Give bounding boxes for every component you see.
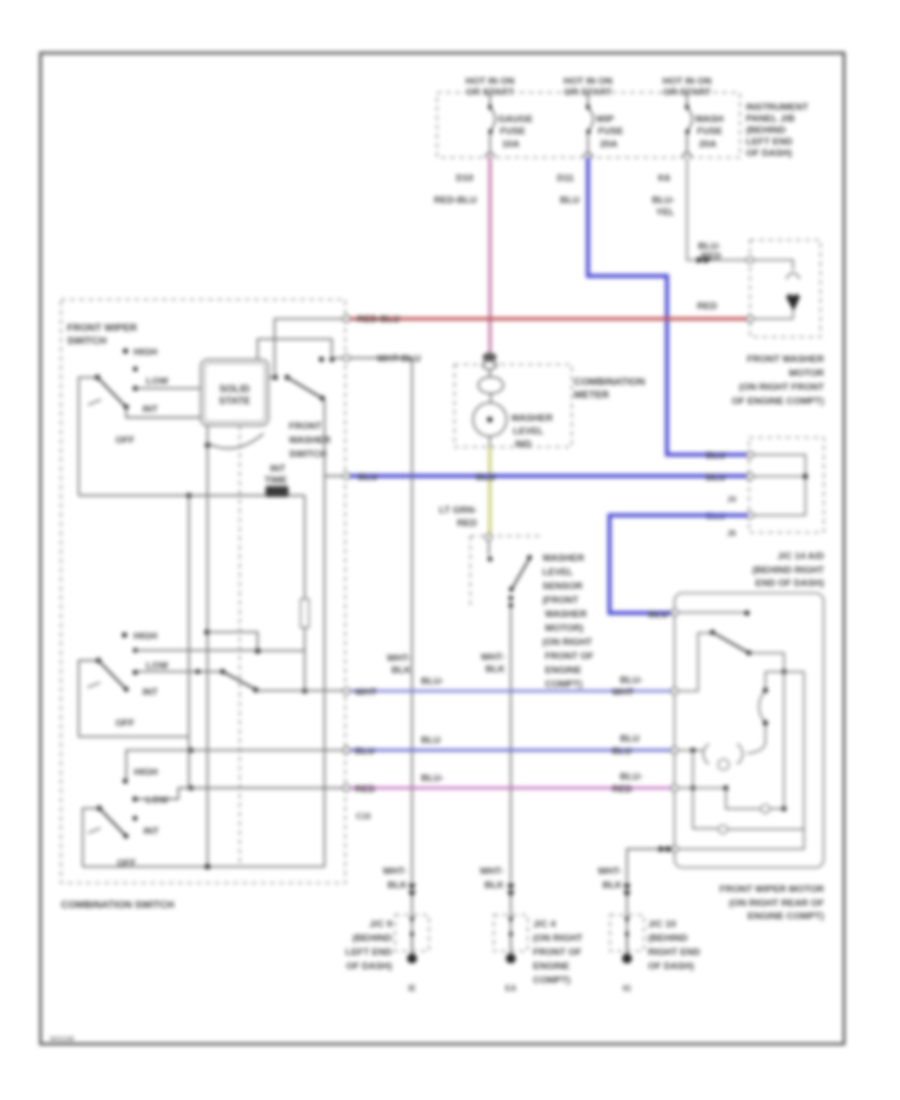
svg-text:BLU: BLU xyxy=(612,746,632,757)
svg-text:FUSE: FUSE xyxy=(697,126,722,137)
svg-text:INT: INT xyxy=(144,826,160,837)
svg-text:BLU-: BLU- xyxy=(620,772,643,783)
wiper motor internal ground path xyxy=(691,750,805,833)
connector label D10 xyxy=(434,173,477,206)
wire WHT-BLK sensor to ground xyxy=(481,607,511,953)
svg-text:IND: IND xyxy=(515,439,532,450)
ground connector 1 xyxy=(395,884,429,993)
svg-text:FRONT WIPER: FRONT WIPER xyxy=(67,323,138,334)
svg-text:SWITCH: SWITCH xyxy=(289,449,327,460)
svg-text:BLK: BLK xyxy=(391,665,411,676)
svg-text:FRONT WIPER MOTOR: FRONT WIPER MOTOR xyxy=(720,884,824,895)
label J/C 14 xyxy=(752,551,824,589)
svg-text:20A: 20A xyxy=(600,139,618,150)
junction connector J/C 14 (dashed box) xyxy=(706,438,824,539)
wire BLU from WIP fuse to J/C xyxy=(588,158,747,455)
front washer motor (dashed box) xyxy=(747,240,821,337)
wire BLU-WHT intermittent row xyxy=(349,675,673,698)
svg-text:BLU-: BLU- xyxy=(421,773,444,784)
label J/C 10 xyxy=(648,919,700,972)
svg-text:J6: J6 xyxy=(727,529,736,538)
svg-text:LT GRN-: LT GRN- xyxy=(439,505,477,516)
svg-text:(BEHIND: (BEHIND xyxy=(746,125,786,136)
svg-text:GAUGE: GAUGE xyxy=(498,114,533,125)
svg-text:FUSE: FUSE xyxy=(598,126,623,137)
svg-text:(ON RIGHT: (ON RIGHT xyxy=(533,933,583,944)
svg-text:OF DASH): OF DASH) xyxy=(346,961,392,972)
svg-text:EA: EA xyxy=(505,984,516,993)
ground 2 wire label xyxy=(480,866,504,891)
svg-text:OF ENGINE COMPT): OF ENGINE COMPT) xyxy=(732,396,824,407)
svg-text:(FRONT: (FRONT xyxy=(543,595,579,606)
wire WHT-BLK wiper motor to ground 3 xyxy=(598,846,673,954)
svg-text:(ON RIGHT REAR OF: (ON RIGHT REAR OF xyxy=(729,898,824,909)
svg-text:COMPT): COMPT) xyxy=(533,975,570,986)
svg-text:BLU: BLU xyxy=(706,451,726,462)
svg-text:RED: RED xyxy=(701,251,721,262)
svg-text:PANEL J/B: PANEL J/B xyxy=(746,114,795,125)
svg-text:WHT-: WHT- xyxy=(387,653,411,664)
svg-text:INT: INT xyxy=(270,464,286,475)
svg-text:IE: IE xyxy=(408,984,416,993)
off rail 2 xyxy=(83,864,325,870)
wire WHT-BLU washer switch to ground 1 xyxy=(349,354,421,954)
svg-text:(ON RIGHT FRONT: (ON RIGHT FRONT xyxy=(739,382,824,393)
svg-text:WHT-: WHT- xyxy=(598,866,622,877)
wire RED washer switch to washer motor xyxy=(349,301,747,325)
combination switch (dashed box) xyxy=(61,300,345,884)
svg-text:LOW: LOW xyxy=(146,376,168,387)
svg-text:10A: 10A xyxy=(502,139,520,150)
dashed internal link xyxy=(239,426,241,865)
svg-text:OF DASH): OF DASH) xyxy=(648,961,694,972)
svg-text:FUSE: FUSE xyxy=(500,126,525,137)
svg-text:FRONT WASHER: FRONT WASHER xyxy=(747,354,824,365)
washer switch contacts xyxy=(258,319,343,867)
svg-text:BLU: BLU xyxy=(648,610,668,621)
ground connector 2 xyxy=(494,884,528,993)
power feed label HOT IN ON (fuse 3) xyxy=(662,76,711,98)
wiper motor park switch arm xyxy=(679,630,787,691)
svg-text:WHT-: WHT- xyxy=(481,652,505,663)
washer level sensor (dashed box) xyxy=(470,534,540,608)
svg-text:BLU: BLU xyxy=(560,195,580,206)
svg-text:J/C 10: J/C 10 xyxy=(648,919,676,930)
common vertical xyxy=(188,496,193,791)
svg-text:SOLID: SOLID xyxy=(219,384,250,395)
svg-text:J/C 14 A/D: J/C 14 A/D xyxy=(777,551,824,562)
wiper motor park contact feed xyxy=(679,610,750,615)
svg-text:WASHER: WASHER xyxy=(543,553,585,564)
svg-text:D11: D11 xyxy=(557,173,575,184)
wire BLU low speed row xyxy=(349,734,673,758)
svg-text:BLU: BLU xyxy=(358,472,378,483)
svg-text:ENGINE COMPT): ENGINE COMPT) xyxy=(747,911,824,922)
svg-text:K6: K6 xyxy=(658,173,670,184)
svg-text:OFF: OFF xyxy=(116,435,135,446)
svg-text:D10: D10 xyxy=(456,173,473,184)
svg-text:FRONT OF: FRONT OF xyxy=(533,947,582,958)
wire BLU-YEL / BLU-RED from WASH fuse to washer motor xyxy=(687,158,747,264)
ground 1 wire label xyxy=(383,866,407,891)
label J/C 4 xyxy=(533,919,583,986)
svg-text:WIP: WIP xyxy=(596,114,615,125)
svg-text:COMBINATION: COMBINATION xyxy=(574,377,645,388)
wiper switch section 3 xyxy=(83,750,343,869)
wiper switch section 1 xyxy=(79,347,201,496)
label front washer switch xyxy=(289,421,331,460)
fuse GAUGE 10A xyxy=(486,93,533,158)
resistor int timer xyxy=(207,496,309,694)
svg-text:J4: J4 xyxy=(727,495,736,504)
svg-text:HOT IN ON: HOT IN ON xyxy=(563,76,612,87)
svg-text:(BEHIND: (BEHIND xyxy=(352,933,392,944)
svg-text:BLK: BLK xyxy=(485,664,505,675)
wiper motor right rail xyxy=(679,672,805,849)
svg-text:BLU-: BLU- xyxy=(421,676,444,687)
svg-text:MOTOR: MOTOR xyxy=(789,368,824,379)
svg-text:LEVEL: LEVEL xyxy=(513,426,544,437)
svg-text:WHT: WHT xyxy=(612,687,634,698)
svg-text:LOW: LOW xyxy=(146,661,168,672)
svg-text:BLU: BLU xyxy=(620,734,640,745)
wiper motor common path xyxy=(679,672,787,813)
connector label K6 xyxy=(652,173,675,218)
svg-text:RED-BLU: RED-BLU xyxy=(357,314,400,325)
label combination meter xyxy=(574,377,645,401)
connector label D11 xyxy=(557,173,580,206)
svg-text:RED: RED xyxy=(697,301,717,312)
svg-text:WASHER: WASHER xyxy=(511,413,553,424)
svg-text:RED: RED xyxy=(457,518,477,529)
wiper motor cam contact xyxy=(747,672,804,754)
svg-text:20A: 20A xyxy=(699,139,717,150)
svg-text:BLU: BLU xyxy=(476,472,496,483)
svg-text:RED: RED xyxy=(355,784,375,795)
svg-text:BLK: BLK xyxy=(387,880,407,891)
svg-text:WHT-: WHT- xyxy=(480,866,504,877)
svg-text:(ON RIGHT: (ON RIGHT xyxy=(543,637,593,648)
solid state output xyxy=(204,426,263,867)
svg-text:SENSOR: SENSOR xyxy=(543,581,583,592)
svg-text:LOW: LOW xyxy=(146,795,168,806)
svg-text:INT: INT xyxy=(143,687,159,698)
label front washer motor xyxy=(732,354,825,407)
svg-text:MOTOR): MOTOR) xyxy=(545,623,583,634)
svg-text:WASH: WASH xyxy=(695,114,724,125)
svg-text:SWITCH: SWITCH xyxy=(67,336,106,347)
svg-text:FRONT OF: FRONT OF xyxy=(545,651,594,662)
svg-text:HIGH: HIGH xyxy=(134,631,158,642)
fuse WASH 20A xyxy=(683,93,724,158)
svg-text:INT: INT xyxy=(143,404,159,415)
wire RED-BLU from gauge fuse to combination meter xyxy=(488,158,491,353)
front wiper motor box xyxy=(671,593,824,868)
fuse WIP 20A xyxy=(584,93,624,158)
svg-text:HOT IN ON: HOT IN ON xyxy=(465,76,514,87)
svg-text:STATE: STATE xyxy=(219,396,251,407)
int time control xyxy=(265,464,289,498)
svg-text:RED-BLU: RED-BLU xyxy=(434,195,477,206)
svg-text:YEL: YEL xyxy=(656,207,675,218)
label J/C 9 xyxy=(346,919,393,972)
svg-text:IG: IG xyxy=(623,984,631,993)
svg-text:M4110B: M4110B xyxy=(50,1036,75,1043)
instrument panel junction block (dashed box) xyxy=(437,93,740,158)
svg-text:OFF: OFF xyxy=(116,718,135,729)
wire BLU from J/C 14 to wiper motor xyxy=(610,515,749,620)
label front wiper motor xyxy=(720,884,825,922)
solid state controller U1 xyxy=(201,360,269,426)
svg-text:INSTRUMENT: INSTRUMENT xyxy=(746,102,808,113)
wire LT GRN-RED meter to level sensor xyxy=(439,447,490,535)
svg-text:HIGH: HIGH xyxy=(134,767,158,778)
off rail 1 xyxy=(79,493,305,498)
svg-text:BLU-: BLU- xyxy=(620,675,643,686)
svg-text:BLU: BLU xyxy=(706,472,726,483)
svg-text:TIME: TIME xyxy=(265,475,288,486)
svg-text:RED: RED xyxy=(612,784,632,795)
svg-text:COMBINATION SWITCH: COMBINATION SWITCH xyxy=(61,900,174,911)
label instrument panel J/B xyxy=(746,102,808,159)
svg-text:J/C 9: J/C 9 xyxy=(369,919,392,930)
svg-text:(BEHIND RIGHT: (BEHIND RIGHT xyxy=(752,565,824,576)
svg-text:C16: C16 xyxy=(356,812,371,821)
label washer level sensor xyxy=(543,553,594,690)
svg-text:ENGINE: ENGINE xyxy=(545,665,581,676)
ground connector 3 xyxy=(610,884,644,993)
svg-text:WASHER: WASHER xyxy=(289,435,331,446)
svg-text:LEVEL: LEVEL xyxy=(543,567,574,578)
svg-text:HOT IN ON: HOT IN ON xyxy=(662,76,711,87)
svg-text:LEFT END: LEFT END xyxy=(746,137,793,148)
svg-text:COMPT): COMPT) xyxy=(545,679,582,690)
svg-text:WASHER: WASHER xyxy=(545,609,587,620)
svg-text:ENGINE: ENGINE xyxy=(533,961,569,972)
svg-text:(BEHIND: (BEHIND xyxy=(648,933,688,944)
svg-text:BLU: BLU xyxy=(421,735,441,746)
svg-text:WHT-: WHT- xyxy=(383,866,407,877)
svg-text:END OF DASH): END OF DASH) xyxy=(755,578,824,589)
svg-text:FRONT: FRONT xyxy=(289,421,322,432)
svg-text:LEFT END: LEFT END xyxy=(346,947,393,958)
wiper switch section 2 xyxy=(79,631,343,737)
svg-text:BLK: BLK xyxy=(602,880,622,891)
power feed label HOT IN ON (fuse 2) xyxy=(563,76,612,98)
svg-text:BLK: BLK xyxy=(484,880,504,891)
svg-text:BLU-: BLU- xyxy=(652,195,675,206)
combination meter (dashed box) xyxy=(454,353,571,451)
wire BLU combination switch to J/C 14 xyxy=(349,472,747,483)
svg-text:J/C 4: J/C 4 xyxy=(533,919,556,930)
svg-text:RIGHT END: RIGHT END xyxy=(648,947,700,958)
svg-text:METER: METER xyxy=(574,390,610,401)
svg-text:HIGH: HIGH xyxy=(134,347,158,358)
power feed label HOT IN ON (fuse 1) xyxy=(465,76,514,98)
svg-text:OF DASH): OF DASH) xyxy=(746,148,792,159)
wire BLU-RED high speed row xyxy=(349,772,673,796)
label front wiper switch xyxy=(67,323,138,347)
svg-text:WHT: WHT xyxy=(355,687,377,698)
svg-text:BLU: BLU xyxy=(355,746,375,757)
connector pins on combination switch xyxy=(343,315,350,791)
wiper motor armature and brushes xyxy=(679,744,743,770)
svg-text:WHT-BLU: WHT-BLU xyxy=(377,354,421,365)
